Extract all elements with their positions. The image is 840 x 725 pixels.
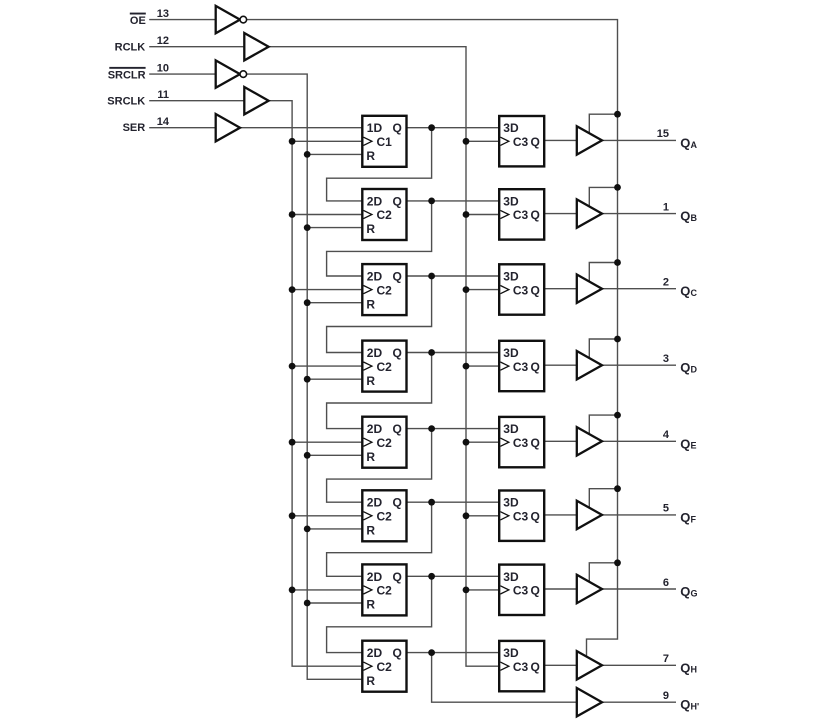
flip-flop FF1 (1D C1 R) [362,116,406,167]
node QC serial junction [428,273,435,280]
svg-text:A: A [691,140,698,150]
node SRCLR junction stage F [304,526,311,533]
wire RCLK input [149,46,244,48]
svg-text:Q: Q [680,510,690,525]
svg-text:C2: C2 [377,436,393,450]
wire FF5 Q to latch E 3D input [407,428,500,430]
node SRCLR junction stage E [304,452,311,459]
node RCLK junction stage C [463,286,470,293]
svg-text:2D: 2D [367,422,383,436]
wire SRCLR branch to FF1 R [307,153,362,155]
svg-text:2D: 2D [367,346,383,360]
tri-state output buffer H [577,651,602,679]
flip-flop FF3 (2D C2 R) [362,264,406,315]
svg-text:Q: Q [392,121,401,135]
svg-text:Q: Q [392,270,401,284]
wire latch A Q to output buffer [544,139,577,141]
tri-state output buffer C [577,275,602,303]
svg-text:R: R [366,674,375,688]
wire SRCLR branch to FF3 R [307,302,362,304]
wire enable stub buffer D [589,339,617,361]
svg-text:C3: C3 [513,436,529,450]
svg-text:Q: Q [530,208,539,222]
svg-text:D: D [691,365,698,375]
svg-text:3D: 3D [503,270,519,284]
svg-text:6: 6 [663,577,669,589]
svg-text:C3: C3 [513,584,529,598]
svg-text:SRCLR: SRCLR [108,70,146,82]
latch L7 (3D C3) [499,565,544,615]
wire SER input [149,127,216,129]
node OE junction stage A [614,111,621,118]
wire FF4 Q to latch D 3D input [407,352,500,354]
wire SRCLR branch to FF7 R [307,602,362,604]
wire OE input [149,19,216,21]
svg-text:R: R [366,598,375,612]
svg-text:Q: Q [530,660,539,674]
node OE junction stage B [614,184,621,191]
wire SRCLK branch to FF6 C2 [292,515,362,517]
wire FF3 Q to latch C 3D input [407,275,500,277]
wire FF6 Q to latch F 3D input [407,501,500,503]
svg-text:R: R [366,149,375,163]
svg-text:Q: Q [680,697,690,712]
wire RCLK branch to latch E C3 [466,441,499,443]
node SRCLR junction stage B [304,224,311,231]
svg-text:C2: C2 [377,208,393,222]
svg-text:RCLK: RCLK [115,42,146,54]
wire RCLK branch to latch G C3 [466,589,499,591]
svg-text:G: G [691,588,698,598]
node SRCLK junction stage C [289,286,296,293]
buffer U3 inverter (SRCLR) [216,60,240,87]
svg-text:2: 2 [663,277,669,289]
wire output QG [602,588,676,590]
wire FF2 Q to latch B 3D input [407,200,500,202]
svg-text:3D: 3D [503,496,519,510]
svg-text:7: 7 [663,653,669,665]
wire latch B Q to output buffer [544,213,577,215]
wire enable stub buffer A [589,114,617,136]
wire output QH [602,664,676,666]
svg-text:C: C [691,288,698,298]
svg-text:2D: 2D [367,194,383,208]
svg-text:Q: Q [530,135,539,149]
svg-text:C2: C2 [377,584,393,598]
svg-text:R: R [366,374,375,388]
buffer U5 (SER) [216,114,240,141]
svg-text:Q: Q [392,422,401,436]
svg-text:3D: 3D [503,194,519,208]
wire output QC [602,288,676,290]
svg-text:E: E [691,441,697,451]
svg-text:12: 12 [157,35,169,47]
wire RCLK branch to latch A C3 [466,140,499,142]
wire FF8 Q to latch H 3D input [407,652,500,654]
wire enable stub buffer G [589,563,617,585]
wire output QH' [602,701,676,703]
node SRCLR junction stage D [304,376,311,383]
wire FF8 Q branch to QH' buffer [432,653,577,703]
node SRCLK junction stage B [289,211,296,218]
wire latch F Q to output buffer [544,514,577,516]
node RCLK junction stage B [463,211,470,218]
node OE junction stage G [614,559,621,566]
wire net SRCLR-bar from inverter to reset column [247,74,363,679]
wire serial link QE to FF6 2D [327,429,432,503]
wire enable stub buffer E [589,415,617,437]
wire SRCLK branch to FF3 C2 [292,289,362,291]
wire SER to FF1 1D input [240,127,362,129]
node OE junction stage C [614,259,621,266]
svg-text:Q: Q [680,584,690,599]
svg-text:4: 4 [663,429,670,441]
svg-text:Q: Q [680,209,690,224]
svg-text:11: 11 [157,89,169,101]
svg-text:R: R [366,524,375,538]
svg-text:C2: C2 [377,283,393,297]
wire SRCLR branch to FF6 R [307,528,362,530]
svg-text:3D: 3D [503,346,519,360]
wire SRCLK branch to FF4 C2 [292,365,362,367]
wire enable stub buffer C [589,263,617,285]
latch L8 (3D C3) [499,641,544,691]
wire output QA [602,139,676,141]
wire SRCLK branch to FF7 C2 [292,589,362,591]
wire serial link QD to FF5 2D [327,353,432,429]
svg-text:F: F [691,514,697,524]
flip-flop FF5 (2D C2 R) [362,417,406,468]
tri-state output buffer F [577,501,602,529]
wire SRCLK input [149,100,244,102]
latch L4 (3D C3) [499,341,544,391]
flip-flop FF7 (2D C2 R) [362,564,406,615]
svg-text:Q: Q [530,584,539,598]
svg-text:15: 15 [657,128,669,140]
svg-text:3D: 3D [503,646,519,660]
latch L5 (3D C3) [499,417,544,467]
wire SRCLK branch to FF2 C2 [292,214,362,216]
flip-flop FF4 (2D C2 R) [362,341,406,392]
node QG serial junction [428,573,435,580]
svg-text:C3: C3 [513,283,529,297]
node SRCLK junction stage G [289,587,296,594]
latch L3 (3D C3) [499,264,544,314]
node SRCLK junction stage F [289,512,296,519]
wire RCLK branch to latch D C3 [466,365,499,367]
tri-state output buffer B [577,199,602,227]
node RCLK junction stage G [463,587,470,594]
svg-text:13: 13 [157,8,169,20]
wire SRCLR branch to FF4 R [307,378,362,380]
wire serial link QB to FF3 2D [327,201,432,276]
svg-text:10: 10 [157,62,169,74]
buffer U4 (SRCLK) [244,87,268,114]
wire serial link QC to FF4 2D [327,276,432,353]
svg-text:Q: Q [680,660,690,675]
wire latch H Q to output buffer [544,664,577,666]
wire latch C Q to output buffer [544,288,577,290]
wire output QB [602,213,676,215]
svg-text:Q: Q [680,135,690,150]
node RCLK junction stage D [463,363,470,370]
wire serial link QF to FF7 2D [327,502,432,576]
svg-text:C2: C2 [377,510,393,524]
wire SRCLK branch to FF1 C2 [292,140,362,142]
wire enable stub buffer B [589,187,617,209]
svg-text:Q: Q [392,194,401,208]
svg-text:14: 14 [157,116,170,128]
svg-text:R: R [366,222,375,236]
wire output QD [602,364,676,366]
flip-flop FF8 (2D C2 R) [362,641,406,692]
svg-text:SER: SER [123,122,146,134]
wire SRCLR input [149,73,216,75]
wire RCLK branch to latch F C3 [466,515,499,517]
wire net OE-bar from inverter to output-enable column [247,20,618,662]
svg-text:C3: C3 [513,360,529,374]
wire SRCLR branch to FF2 R [307,227,362,229]
svg-text:C3: C3 [513,510,529,524]
node SRCLR junction stage G [304,600,311,607]
node RCLK junction stage F [463,512,470,519]
node QE serial junction [428,425,435,432]
wire serial link QG to FF8 2D [327,576,432,652]
wire output QF [602,514,676,516]
svg-text:Q: Q [392,496,401,510]
svg-text:Q: Q [680,436,690,451]
svg-text:2D: 2D [367,496,383,510]
node QB serial junction [428,198,435,205]
tri-state output buffer A [577,126,602,154]
svg-text:B: B [691,213,698,223]
node QH serial junction [428,649,435,656]
svg-text:2D: 2D [367,646,383,660]
wire serial link QA to FF2 2D [327,128,432,201]
svg-text:Q: Q [680,360,690,375]
svg-text:3D: 3D [503,121,519,135]
latch L1 (3D C3) [499,116,544,166]
svg-text:OE: OE [130,15,146,27]
node OE junction stage F [614,485,621,492]
latch L6 (3D C3) [499,491,544,541]
wire latch D Q to output buffer [544,364,577,366]
wire latch G Q to output buffer [544,588,577,590]
wire net SRCLK from buffer to shift-clock column [269,101,363,667]
svg-text:3D: 3D [503,570,519,584]
buffer U2 (RCLK) [244,33,268,60]
svg-text:C2: C2 [377,660,393,674]
node OE junction stage E [614,412,621,419]
svg-text:Q: Q [530,283,539,297]
wire net RCLK from buffer to latch-clock column [269,47,500,667]
svg-text:2D: 2D [367,570,383,584]
node SRCLK junction stage E [289,439,296,446]
latch L2 (3D C3) [499,189,544,239]
svg-text:Q: Q [392,346,401,360]
svg-text:SRCLK: SRCLK [107,96,145,108]
svg-text:1: 1 [663,201,669,213]
node QD serial junction [428,349,435,356]
flip-flop FF2 (2D C2 R) [362,189,406,240]
node SRCLK junction stage A [289,138,296,145]
wire SRCLK branch to FF5 C2 [292,441,362,443]
node QF serial junction [428,499,435,506]
wire enable stub buffer F [589,489,617,511]
svg-text:C1: C1 [377,135,393,149]
svg-text:9: 9 [663,690,669,702]
wire latch E Q to output buffer [544,440,577,442]
buffer U1 inverter (OE) [216,6,240,33]
svg-text:C3: C3 [513,660,529,674]
svg-text:H: H [691,665,698,675]
wire output QE [602,440,676,442]
wire FF7 Q to latch G 3D input [407,575,500,577]
wire RCLK branch to latch B C3 [466,214,499,216]
svg-text:Q: Q [530,510,539,524]
tri-state output buffer D [577,351,602,379]
wire RCLK branch to latch C C3 [466,289,499,291]
svg-text:H': H' [691,702,700,712]
buffer QH' (serial out) [577,688,602,716]
svg-text:R: R [366,450,375,464]
node SRCLR junction stage A [304,151,311,158]
flip-flop FF6 (2D C2 R) [362,490,406,541]
svg-text:C2: C2 [377,360,393,374]
svg-text:5: 5 [663,503,669,515]
node RCLK junction stage A [463,138,470,145]
node RCLK junction stage E [463,439,470,446]
node OE junction stage D [614,336,621,343]
wire FF1 Q to latch A 3D input [407,127,500,129]
svg-text:Q: Q [392,646,401,660]
svg-text:Q: Q [392,570,401,584]
svg-text:3D: 3D [503,422,519,436]
svg-text:Q: Q [680,284,690,299]
svg-text:2D: 2D [367,270,383,284]
wire SRCLR branch to FF5 R [307,454,362,456]
tri-state output buffer E [577,427,602,455]
node SRCLR junction stage C [304,299,311,306]
svg-text:C3: C3 [513,208,529,222]
svg-text:R: R [366,297,375,311]
svg-text:C3: C3 [513,135,529,149]
node SRCLK junction stage D [289,363,296,370]
svg-text:1D: 1D [367,121,383,135]
svg-text:Q: Q [530,360,539,374]
svg-text:Q: Q [530,436,539,450]
node QA serial junction [428,124,435,131]
svg-text:3: 3 [663,353,669,365]
tri-state output buffer G [577,575,602,603]
